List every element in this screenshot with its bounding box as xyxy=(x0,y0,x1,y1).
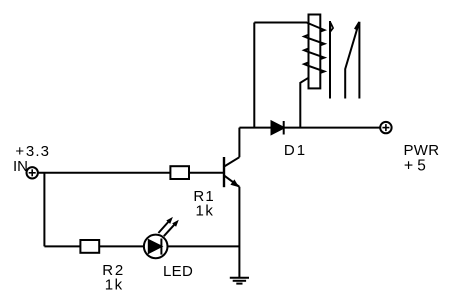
wire LED to emitter node xyxy=(168,245,240,247)
svg-text:D1: D1 xyxy=(284,142,307,159)
svg-text:PWR: PWR xyxy=(404,142,440,159)
svg-text:IN: IN xyxy=(13,158,28,175)
wire R2 to LED xyxy=(99,245,144,247)
terminal IN xyxy=(27,167,38,178)
wire diode to PWR terminal xyxy=(284,127,381,129)
relay armature line xyxy=(329,21,331,99)
resistor R1 xyxy=(170,166,189,179)
svg-text:5: 5 xyxy=(417,158,426,175)
wire IN drop vertical xyxy=(43,173,45,247)
wire LED rail (drop to R2) xyxy=(44,245,80,247)
relay contact tip inner line xyxy=(355,22,359,29)
svg-text:3: 3 xyxy=(41,143,49,160)
svg-text:.: . xyxy=(35,143,39,160)
ground xyxy=(230,278,249,284)
relay NO contact line xyxy=(358,22,360,99)
terminal PWR xyxy=(380,122,391,133)
wire top rail to coil xyxy=(254,22,307,24)
svg-text:LED: LED xyxy=(163,263,193,280)
LED xyxy=(144,217,179,258)
relay core xyxy=(309,15,321,89)
svg-text:1k: 1k xyxy=(196,202,215,219)
relay switch pole (bent line) xyxy=(345,22,359,99)
diode D1 xyxy=(272,121,284,135)
wire coil exit to diode rail xyxy=(300,78,308,128)
svg-text:1k: 1k xyxy=(105,276,124,293)
svg-text:+: + xyxy=(404,158,413,175)
wire left vertical (top rail to collector rail) xyxy=(253,23,255,128)
wire base rail left (IN to R1) xyxy=(38,172,171,174)
relay NC contact flag xyxy=(331,23,334,32)
wire base rail right (R1 to Q1 base) xyxy=(189,172,224,174)
resistor R2 xyxy=(80,240,99,253)
transistor Q1 xyxy=(224,157,239,187)
wire collector rail to diode xyxy=(239,127,271,129)
relay coil winding xyxy=(304,23,324,73)
wire collector vertical xyxy=(238,128,240,158)
wire emitter vertical to ground xyxy=(238,187,240,277)
